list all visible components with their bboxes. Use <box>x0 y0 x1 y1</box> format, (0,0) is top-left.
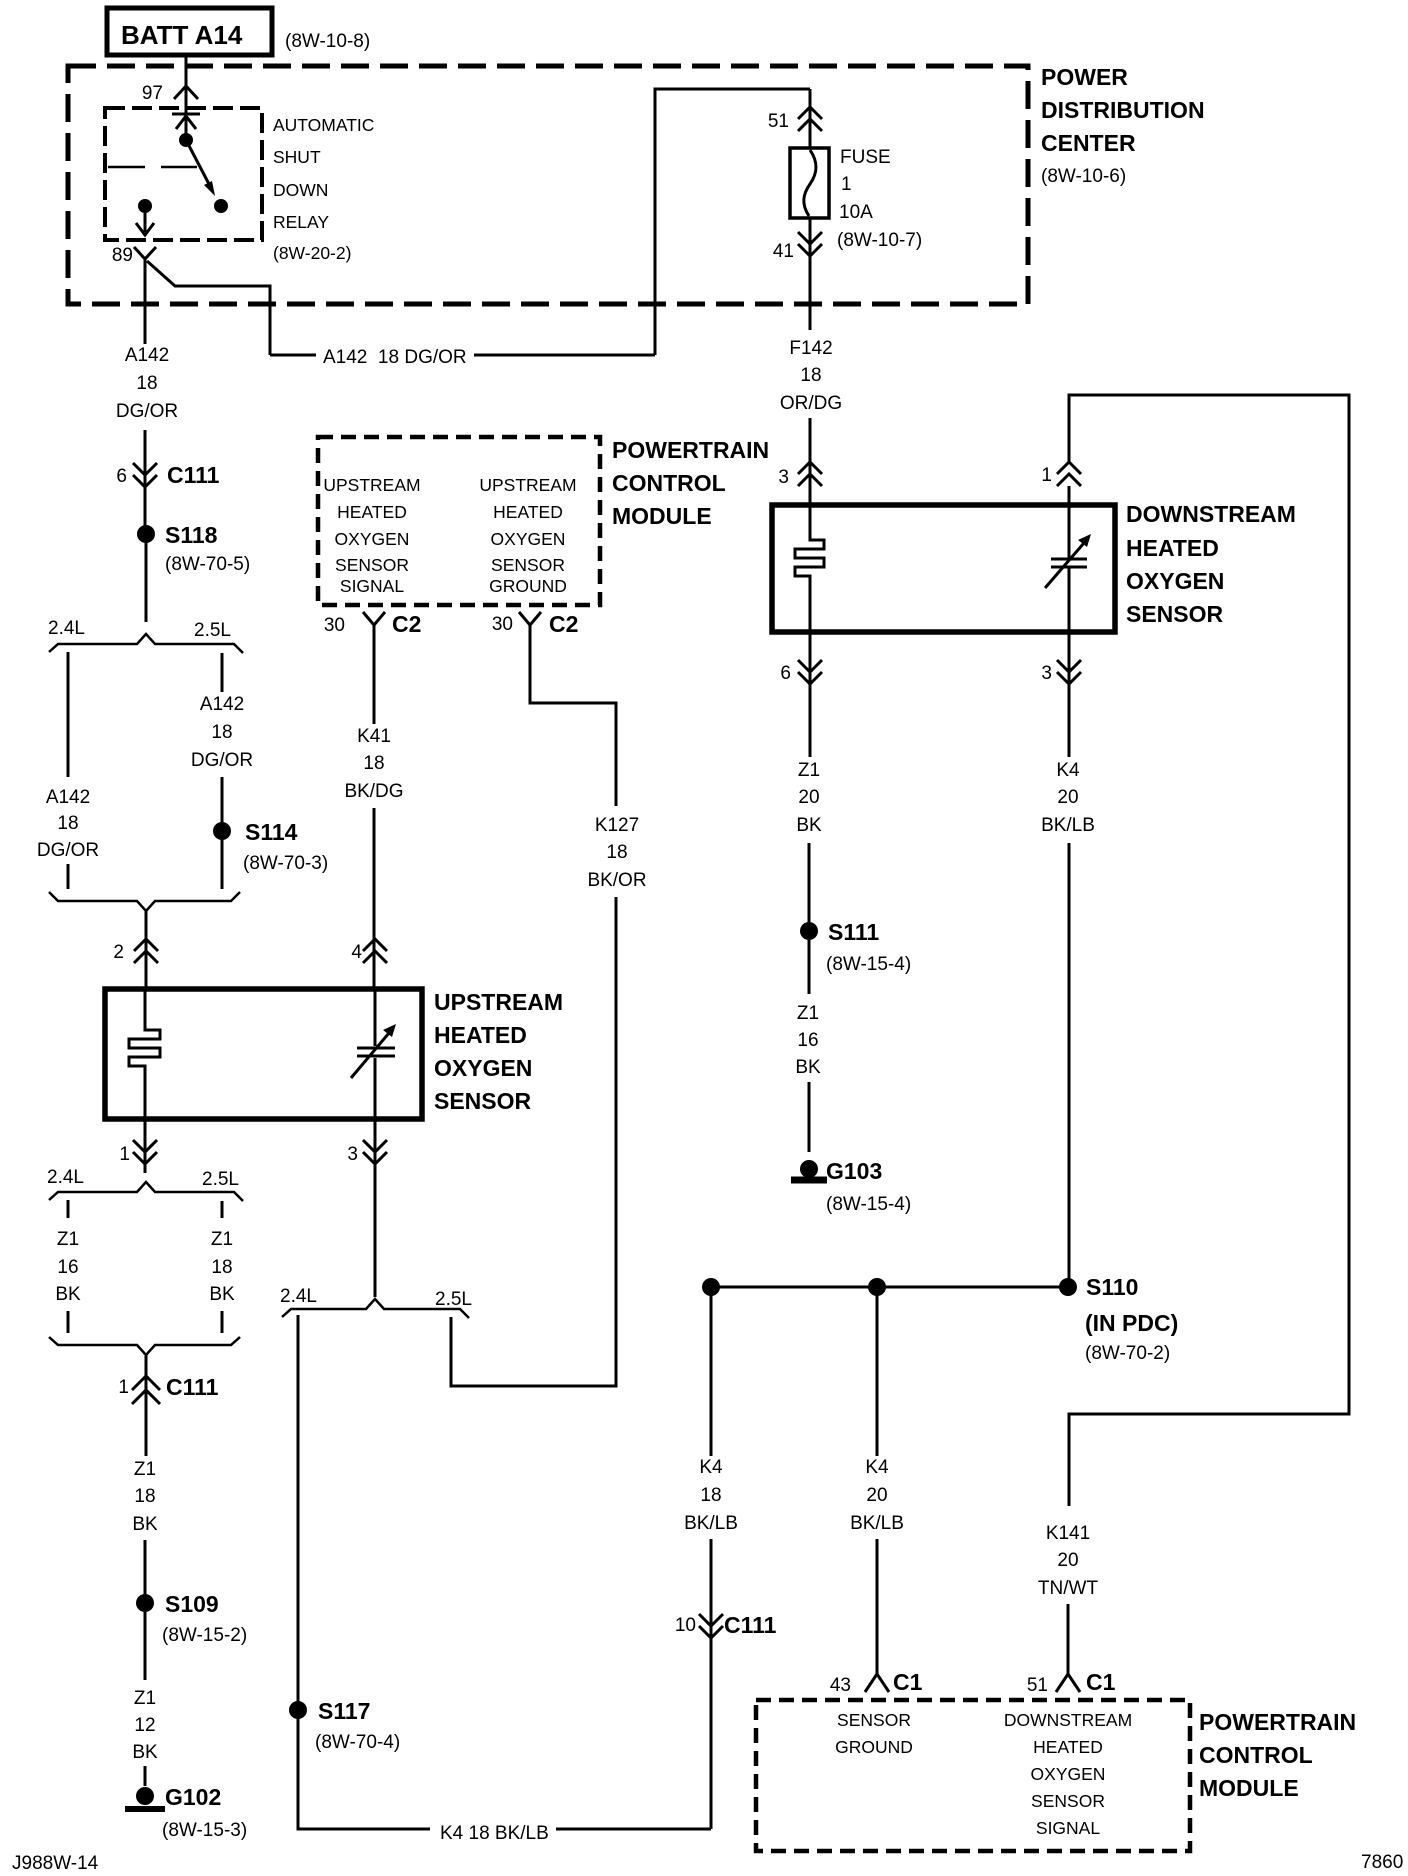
wire pin 3 down <box>1068 632 1071 757</box>
wire A142 horizontal run <box>270 354 316 357</box>
svg-text:SENSOR: SENSOR <box>335 555 409 575</box>
svg-text:C111: C111 <box>167 462 220 488</box>
label K4 20 BK/LB right <box>1041 760 1095 836</box>
wire Z1 2.4L lower <box>67 1311 70 1333</box>
wire to C111 pin 1 <box>145 1354 148 1456</box>
splice S118 <box>137 522 250 575</box>
connector chevron pin 97 <box>174 86 198 99</box>
wire K127 lower <box>451 897 616 1386</box>
svg-text:(8W-20-2): (8W-20-2) <box>273 243 351 263</box>
relay output contact <box>138 199 152 213</box>
wire A142 horizontal run 2 <box>474 354 655 357</box>
label POWER DISTRIBUTION CENTER <box>1041 64 1205 187</box>
wire Z1 2.5L upper <box>221 1201 224 1218</box>
connector pin 6 downstream sensor <box>780 660 822 684</box>
relay terminal arrow down to pin 89 <box>144 206 147 232</box>
svg-text:20: 20 <box>1057 787 1078 808</box>
wire K41 upper <box>373 645 376 724</box>
splice S109 <box>136 1591 247 1646</box>
svg-text:UPSTREAM: UPSTREAM <box>479 475 576 495</box>
splice S117 <box>289 1698 400 1753</box>
junction dot middle <box>868 1278 886 1296</box>
splice S111 <box>800 919 911 975</box>
svg-text:18: 18 <box>606 842 627 863</box>
svg-text:18: 18 <box>136 373 157 394</box>
svg-text:Z1: Z1 <box>797 1003 819 1024</box>
svg-text:C2: C2 <box>549 611 578 637</box>
svg-text:SIGNAL: SIGNAL <box>340 576 404 596</box>
svg-text:S114: S114 <box>245 819 298 845</box>
powertrain control module dashed box top <box>318 437 600 605</box>
svg-text:AUTOMATIC: AUTOMATIC <box>273 115 374 135</box>
label SENSOR GROUND <box>835 1710 913 1757</box>
svg-text:MODULE: MODULE <box>1199 1775 1299 1801</box>
wire to G102 <box>144 1766 147 1786</box>
svg-text:S118: S118 <box>165 522 218 548</box>
wire downstream signal loop <box>1069 395 1349 1506</box>
wire pin 1 down <box>144 1119 147 1173</box>
brace split 2.4L/2.5L middle <box>280 1286 472 1318</box>
wire S110 middle leg down <box>876 1287 879 1456</box>
svg-text:G102: G102 <box>165 1784 221 1810</box>
svg-text:10: 10 <box>675 1615 696 1636</box>
svg-text:51: 51 <box>768 111 789 132</box>
svg-text:SENSOR: SENSOR <box>491 555 565 575</box>
automatic shut down relay dashed box <box>105 108 262 240</box>
svg-text:Z1: Z1 <box>211 1229 233 1250</box>
svg-text:(8W-15-3): (8W-15-3) <box>162 1820 247 1841</box>
wire S118 down <box>145 543 148 622</box>
sensor element downstream <box>1045 486 1091 632</box>
svg-text:BK: BK <box>209 1284 235 1305</box>
battery feed box BATT A14 <box>107 8 272 55</box>
svg-text:S117: S117 <box>318 1698 370 1724</box>
svg-text:16: 16 <box>797 1030 818 1051</box>
svg-text:SIGNAL: SIGNAL <box>1036 1818 1100 1838</box>
svg-text:MODULE: MODULE <box>612 503 712 529</box>
svg-text:BK: BK <box>796 815 822 836</box>
label Z1 18 BK below C111 <box>132 1459 158 1535</box>
wire to S111 <box>808 843 811 922</box>
label K41 18 BK/DG <box>344 726 403 802</box>
connector chevron pin 89 <box>134 247 156 259</box>
svg-text:G103: G103 <box>826 1158 882 1184</box>
connector C111 pin 10 <box>675 1612 777 1638</box>
label Z1 16 BK right <box>795 1003 821 1078</box>
svg-text:20: 20 <box>798 787 819 808</box>
svg-text:2.4L: 2.4L <box>280 1286 317 1307</box>
svg-text:SHUT: SHUT <box>273 147 321 167</box>
splice node S110 bus <box>711 1286 1068 1289</box>
relay NO contact <box>214 199 228 213</box>
wire pin 3 down <box>374 1119 377 1297</box>
svg-text:BK: BK <box>132 1742 158 1763</box>
wire 2.4L branch upper <box>67 652 70 777</box>
label Z1 16 BK <box>55 1229 81 1305</box>
wire 2.5L to S114 <box>221 777 224 822</box>
downstream heated oxygen sensor box <box>772 505 1115 632</box>
svg-text:HEATED: HEATED <box>434 1022 527 1048</box>
connector pin 1 upstream sensor <box>119 1140 157 1165</box>
svg-text:7860: 7860 <box>1361 1852 1403 1873</box>
svg-text:1: 1 <box>119 1144 130 1165</box>
svg-text:SENSOR: SENSOR <box>1126 601 1224 627</box>
ground G102 <box>125 1784 247 1841</box>
svg-text:(8W-10-6): (8W-10-6) <box>1041 166 1126 187</box>
svg-text:3: 3 <box>778 467 789 488</box>
connector C2 pin 30 ground <box>492 611 579 645</box>
label DOWNSTREAM HEATED OXYGEN SENSOR SIGNAL <box>1004 1710 1132 1838</box>
ground G103 <box>791 1158 911 1215</box>
label K127 18 BK/OR <box>587 815 646 891</box>
wire to pin 2 <box>145 911 148 989</box>
svg-text:UPSTREAM: UPSTREAM <box>434 989 563 1015</box>
svg-text:BK/OR: BK/OR <box>587 870 646 891</box>
svg-text:Z1: Z1 <box>134 1688 156 1709</box>
svg-text:A142: A142 <box>200 694 244 715</box>
svg-text:2.4L: 2.4L <box>48 618 85 639</box>
connector pin 3 upstream sensor <box>347 1140 387 1165</box>
connector pin 3 downstream sensor bottom <box>1041 660 1081 684</box>
svg-text:1: 1 <box>1041 465 1052 486</box>
wire Z1 2.4L upper <box>67 1200 70 1218</box>
svg-text:S110: S110 <box>1086 1274 1138 1300</box>
svg-text:3: 3 <box>347 1144 358 1165</box>
label UPSTREAM HEATED OXYGEN SENSOR <box>434 989 563 1114</box>
connector C1 pin 43 <box>830 1669 923 1696</box>
svg-text:F142: F142 <box>789 338 832 359</box>
svg-text:BK/DG: BK/DG <box>344 781 403 802</box>
wire S111 down <box>808 940 811 994</box>
heater element upstream <box>129 989 160 1119</box>
relay common contact <box>179 133 193 147</box>
svg-text:89: 89 <box>112 245 133 266</box>
svg-text:97: 97 <box>142 83 163 104</box>
svg-text:S111: S111 <box>828 919 879 945</box>
svg-text:2.5L: 2.5L <box>194 620 231 641</box>
svg-text:OXYGEN: OXYGEN <box>1031 1764 1106 1784</box>
svg-text:20: 20 <box>866 1485 887 1506</box>
relay movable arm <box>186 140 210 186</box>
brace join lower <box>49 892 240 911</box>
wire S114 down <box>221 840 224 889</box>
wire to fuse pin 51 <box>809 89 812 148</box>
connector pin 51 PDC <box>768 107 822 132</box>
svg-text:2.4L: 2.4L <box>47 1167 84 1188</box>
connector pin 1 downstream sensor <box>1041 462 1081 486</box>
svg-text:18: 18 <box>700 1485 721 1506</box>
svg-text:(8W-70-3): (8W-70-3) <box>243 853 328 874</box>
brace split 2.4L/2.5L upper <box>48 618 243 653</box>
svg-text:BK: BK <box>132 1514 158 1535</box>
svg-text:18: 18 <box>363 753 384 774</box>
splice S114 <box>213 819 328 874</box>
svg-text:K4: K4 <box>865 1457 889 1478</box>
wire 2.5L branch upper <box>221 653 224 692</box>
svg-text:BK: BK <box>795 1057 821 1078</box>
wire BATT A14 to relay pin 97 <box>185 55 188 139</box>
svg-text:(8W-70-4): (8W-70-4) <box>315 1732 400 1753</box>
svg-text:BK/LB: BK/LB <box>850 1513 904 1534</box>
svg-text:OXYGEN: OXYGEN <box>1126 568 1224 594</box>
svg-text:J988W-14: J988W-14 <box>12 1853 99 1874</box>
svg-text:(8W-15-2): (8W-15-2) <box>162 1625 247 1646</box>
svg-text:BATT A14: BATT A14 <box>121 20 243 50</box>
splice S110 <box>1059 1274 1178 1364</box>
svg-text:16: 16 <box>57 1257 78 1278</box>
svg-text:HEATED: HEATED <box>1126 535 1219 561</box>
label Z1 12 BK <box>132 1688 158 1763</box>
relay case boundary bar <box>172 113 200 116</box>
wire Z1 2.5L lower <box>221 1311 224 1333</box>
wire up right side of PDC <box>655 89 810 355</box>
label F142 18 OR/DG <box>780 338 842 414</box>
connector C2 pin 30 signal <box>324 611 422 645</box>
svg-text:K41: K41 <box>357 726 391 747</box>
svg-text:OR/DG: OR/DG <box>780 393 842 414</box>
label K141 20 TN/WT <box>1038 1523 1099 1599</box>
wire fuse to pin 41 <box>809 218 812 330</box>
svg-text:DOWN: DOWN <box>273 180 328 200</box>
svg-text:2.5L: 2.5L <box>202 1169 239 1190</box>
svg-text:CENTER: CENTER <box>1041 130 1136 156</box>
junction dot left <box>702 1278 720 1296</box>
wire branch from 89 to fuse feed <box>147 261 270 355</box>
svg-text:30: 30 <box>492 614 513 635</box>
svg-text:4: 4 <box>351 942 362 963</box>
svg-text:POWER: POWER <box>1041 64 1128 90</box>
svg-text:(8W-15-4): (8W-15-4) <box>826 1194 911 1215</box>
svg-text:GROUND: GROUND <box>489 576 567 596</box>
label A142 18 DG/OR stack <box>116 345 178 422</box>
svg-text:3: 3 <box>1041 663 1052 684</box>
svg-text:Z1: Z1 <box>134 1459 156 1480</box>
label A142 18 DG/OR 2.4L <box>37 787 99 861</box>
svg-text:K4: K4 <box>699 1457 723 1478</box>
label K4 18 BK/LB <box>684 1457 738 1534</box>
upstream heated oxygen sensor box <box>105 989 422 1119</box>
powertrain control module dashed box bottom <box>756 1700 1190 1851</box>
label Z1 18 BK <box>209 1229 235 1305</box>
connector pin 2 upstream sensor <box>113 939 158 963</box>
connector pin 3 downstream sensor <box>778 462 822 488</box>
wire pin 89 down <box>144 259 147 344</box>
svg-text:OXYGEN: OXYGEN <box>335 529 410 549</box>
wire K4 run to C111 pin 10 <box>556 1828 711 1831</box>
wire to C1 pin 43 <box>876 1539 879 1674</box>
wire K41 lower to pin 4 <box>373 808 376 989</box>
wire S109 down <box>144 1612 147 1680</box>
svg-text:CONTROL: CONTROL <box>1199 1742 1313 1768</box>
svg-text:DOWNSTREAM: DOWNSTREAM <box>1126 501 1296 527</box>
label AUTOMATIC SHUT DOWN RELAY <box>273 115 374 263</box>
svg-text:1: 1 <box>841 174 852 195</box>
svg-text:18: 18 <box>800 365 821 386</box>
wire 2.4L branch to S117 <box>297 1315 300 1701</box>
svg-text:(8W-10-8): (8W-10-8) <box>285 31 370 52</box>
brace join to C111 pin 1 <box>49 1337 240 1355</box>
svg-text:K4: K4 <box>1056 760 1080 781</box>
svg-text:2.5L: 2.5L <box>435 1289 472 1310</box>
svg-text:RELAY: RELAY <box>273 212 329 232</box>
svg-text:C1: C1 <box>893 1669 923 1695</box>
svg-text:43: 43 <box>830 1675 851 1696</box>
wire S117 down to K4 run <box>298 1719 430 1829</box>
svg-text:(8W-10-7): (8W-10-7) <box>837 230 922 251</box>
wire K141 to C1 pin 51 <box>1067 1604 1070 1674</box>
label UPSTREAM HEATED OXYGEN SENSOR GROUND <box>479 475 576 596</box>
connector C111 pin 6 <box>116 462 219 488</box>
svg-text:FUSE: FUSE <box>840 147 891 168</box>
svg-text:K127: K127 <box>595 815 639 836</box>
wire K4 to S110 <box>1068 843 1071 1287</box>
label UPSTREAM HEATED OXYGEN SENSOR SIGNAL <box>323 475 420 596</box>
svg-text:20: 20 <box>1057 1550 1078 1571</box>
svg-text:6: 6 <box>780 663 791 684</box>
svg-text:CONTROL: CONTROL <box>612 470 726 496</box>
wire F142 to downstream sensor pin 3 <box>809 418 812 505</box>
svg-text:1: 1 <box>118 1377 129 1398</box>
label A142 18 DG/OR 2.5L <box>191 694 253 771</box>
fuse 1 10A <box>790 147 922 251</box>
relay rest position dashed line <box>108 166 197 169</box>
svg-text:UPSTREAM: UPSTREAM <box>323 475 420 495</box>
svg-text:30: 30 <box>324 615 345 636</box>
svg-text:BK: BK <box>55 1284 81 1305</box>
svg-text:GROUND: GROUND <box>835 1737 913 1757</box>
svg-text:18: 18 <box>134 1486 155 1507</box>
svg-text:2: 2 <box>113 942 124 963</box>
svg-text:Z1: Z1 <box>798 760 820 781</box>
svg-text:Z1: Z1 <box>57 1229 79 1250</box>
label POWERTRAIN CONTROL MODULE bottom <box>1199 1709 1356 1801</box>
svg-text:BK/LB: BK/LB <box>684 1513 738 1534</box>
svg-text:BK/LB: BK/LB <box>1041 815 1095 836</box>
svg-text:DG/OR: DG/OR <box>37 840 99 861</box>
svg-text:SENSOR: SENSOR <box>434 1088 532 1114</box>
wire to S109 <box>144 1540 147 1595</box>
heater element downstream <box>795 462 824 632</box>
svg-text:18: 18 <box>211 722 232 743</box>
svg-text:C2: C2 <box>392 611 421 637</box>
wire to G103 <box>808 1082 811 1152</box>
svg-text:A142 18 DG/OR: A142 18 DG/OR <box>323 347 467 368</box>
svg-text:C1: C1 <box>1086 1669 1116 1695</box>
svg-text:12: 12 <box>134 1715 155 1736</box>
sensor element upstream <box>351 989 396 1119</box>
svg-text:HEATED: HEATED <box>1033 1737 1103 1757</box>
svg-text:(8W-70-5): (8W-70-5) <box>165 554 250 575</box>
svg-text:A142: A142 <box>125 345 169 366</box>
svg-text:18: 18 <box>211 1257 232 1278</box>
svg-text:S109: S109 <box>165 1591 219 1617</box>
svg-text:SENSOR: SENSOR <box>1031 1791 1105 1811</box>
svg-text:DG/OR: DG/OR <box>191 750 253 771</box>
svg-text:41: 41 <box>773 241 794 262</box>
connector pin 4 upstream sensor <box>351 939 387 963</box>
brace split 2.4L/2.5L left lower <box>47 1167 243 1201</box>
svg-text:DG/OR: DG/OR <box>116 401 178 422</box>
svg-text:(IN PDC): (IN PDC) <box>1085 1310 1178 1336</box>
svg-text:POWERTRAIN: POWERTRAIN <box>1199 1709 1356 1735</box>
label POWERTRAIN CONTROL MODULE top <box>612 437 769 529</box>
label Z1 20 BK <box>796 760 822 836</box>
relay terminal arrow up <box>176 116 196 129</box>
connector C1 pin 51 <box>1027 1669 1116 1696</box>
svg-text:C111: C111 <box>166 1374 219 1400</box>
wire pin 6 down <box>809 632 812 757</box>
wire S110 left leg down <box>710 1287 713 1456</box>
svg-text:SENSOR: SENSOR <box>837 1710 911 1730</box>
svg-text:6: 6 <box>116 466 127 487</box>
svg-text:18: 18 <box>57 813 78 834</box>
wire K127 jog <box>530 645 616 806</box>
label K4 20 BK/LB middle <box>850 1457 904 1534</box>
svg-text:HEATED: HEATED <box>337 502 407 522</box>
svg-text:(8W-70-2): (8W-70-2) <box>1085 1343 1170 1364</box>
wire down to C111 <box>144 430 147 526</box>
svg-text:(8W-15-4): (8W-15-4) <box>826 954 911 975</box>
wire 2.4L branch lower <box>67 864 70 889</box>
wire to C111 pin 10 <box>710 1539 713 1829</box>
svg-text:OXYGEN: OXYGEN <box>491 529 566 549</box>
connector C111 pin 1 <box>118 1374 218 1404</box>
svg-text:POWERTRAIN: POWERTRAIN <box>612 437 769 463</box>
svg-text:OXYGEN: OXYGEN <box>434 1055 532 1081</box>
svg-text:TN/WT: TN/WT <box>1038 1578 1099 1599</box>
svg-text:10A: 10A <box>839 202 873 223</box>
connector pin 41 PDC <box>773 232 822 262</box>
svg-text:K141: K141 <box>1046 1523 1090 1544</box>
svg-text:A142: A142 <box>46 787 90 808</box>
svg-text:C111: C111 <box>724 1612 777 1638</box>
svg-text:DISTRIBUTION: DISTRIBUTION <box>1041 97 1205 123</box>
svg-text:K4 18 BK/LB: K4 18 BK/LB <box>440 1823 549 1844</box>
label DOWNSTREAM HEATED OXYGEN SENSOR <box>1126 501 1296 627</box>
svg-text:51: 51 <box>1027 1675 1048 1696</box>
power distribution center dashed box <box>68 66 1028 304</box>
svg-text:HEATED: HEATED <box>493 502 563 522</box>
svg-text:DOWNSTREAM: DOWNSTREAM <box>1004 1710 1132 1730</box>
